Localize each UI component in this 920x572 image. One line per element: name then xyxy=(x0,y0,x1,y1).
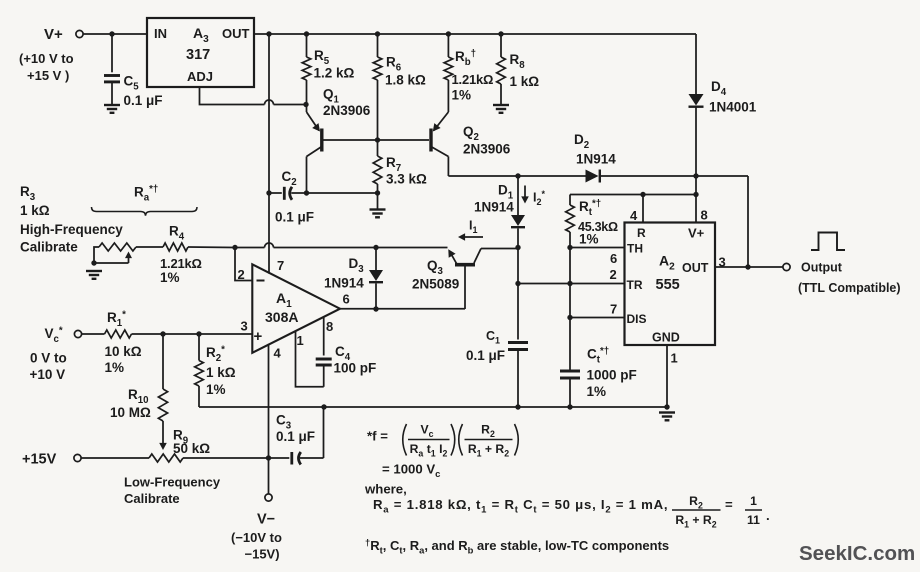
label low-frequency calibrate xyxy=(124,475,221,507)
wire pin4 pin8 rail xyxy=(570,176,708,223)
diode D4 1N4001 xyxy=(689,34,757,176)
svg-text:(−10V to: (−10V to xyxy=(231,530,282,545)
icon pulse waveform xyxy=(811,233,845,251)
svg-text:1.21kΩ: 1.21kΩ xyxy=(160,256,202,271)
ground below R3 xyxy=(86,271,102,279)
diode D2 1N914 xyxy=(574,132,616,183)
svg-text:2: 2 xyxy=(610,267,617,282)
wire TR pin 2 xyxy=(515,248,624,287)
wire ground rail xyxy=(199,404,670,409)
svg-text:†Rt, Ct, Ra, and Rb are stable: †Rt, Ct, Ra, and Rb are stable, low-TC c… xyxy=(365,537,669,556)
svg-text:+: + xyxy=(254,328,263,345)
svg-text:OUT: OUT xyxy=(222,26,250,41)
svg-text:3: 3 xyxy=(719,255,726,270)
diode D3 1N914 xyxy=(324,248,383,312)
svg-text:2N5089: 2N5089 xyxy=(412,277,459,292)
svg-text:1 kΩ: 1 kΩ xyxy=(20,203,50,218)
resistor R1 10k xyxy=(105,309,142,375)
svg-text:OUT: OUT xyxy=(682,261,709,275)
capacitor C2 xyxy=(269,169,378,225)
svg-text:10 kΩ: 10 kΩ xyxy=(105,344,142,359)
wire op-amp pin 4 to V- xyxy=(266,344,271,494)
svg-text:Calibrate: Calibrate xyxy=(20,240,78,255)
svg-text:ADJ: ADJ xyxy=(187,69,213,84)
svg-text:1%: 1% xyxy=(579,232,599,247)
capacitor C4 100pF xyxy=(296,317,377,387)
formula 1000Vc xyxy=(382,462,440,481)
resistor R5 xyxy=(302,34,354,105)
current arrow I2 xyxy=(521,186,545,208)
svg-text:100 pF: 100 pF xyxy=(334,361,377,376)
ground at rail end xyxy=(659,413,675,421)
wire summing line with hop xyxy=(188,243,448,250)
svg-text:1: 1 xyxy=(671,351,678,366)
wire TH pin 6 xyxy=(567,245,624,266)
svg-text:1%: 1% xyxy=(160,270,180,285)
svg-text:8: 8 xyxy=(701,208,708,223)
resistor R8 xyxy=(497,34,540,105)
label output xyxy=(798,261,901,296)
wire pin 2 input xyxy=(232,245,252,281)
svg-text:R1 + R2: R1 + R2 xyxy=(675,513,716,529)
svg-text:1%: 1% xyxy=(452,88,472,103)
svg-text:TH: TH xyxy=(627,242,643,256)
label where xyxy=(364,482,407,497)
svg-text:1N914: 1N914 xyxy=(324,276,364,291)
svg-text:0.1 μF: 0.1 μF xyxy=(466,348,505,363)
wire V+ vertical to op-amp pin 7 xyxy=(266,34,271,274)
svg-text:SeekIC.com: SeekIC.com xyxy=(799,542,915,565)
svg-text:1N914: 1N914 xyxy=(474,200,514,215)
transistor Q1 2N3906 xyxy=(307,87,371,194)
svg-text:2N3906: 2N3906 xyxy=(463,142,511,157)
svg-text:4: 4 xyxy=(630,208,638,223)
svg-text:0 V to: 0 V to xyxy=(30,351,67,366)
resistor R9 pot 50k xyxy=(82,428,269,463)
svg-text:555: 555 xyxy=(656,277,680,293)
svg-text:3.3 kΩ: 3.3 kΩ xyxy=(386,172,427,187)
resistor R2 1k xyxy=(195,334,236,407)
svg-text:*f =: *f = xyxy=(367,429,388,444)
svg-text:GND: GND xyxy=(652,331,680,345)
wire to OUT node xyxy=(745,176,750,270)
capacitor Ct 1000pF xyxy=(560,318,637,408)
svg-text:V+: V+ xyxy=(44,26,63,43)
ground below C5 xyxy=(104,105,120,113)
svg-text:1 kΩ: 1 kΩ xyxy=(510,74,540,89)
ground below R8 xyxy=(493,105,509,113)
wire pin 3 line xyxy=(82,331,252,336)
svg-text:Low-Frequency: Low-Frequency xyxy=(124,475,221,490)
svg-text:1.21kΩ: 1.21kΩ xyxy=(452,72,494,87)
transistor Q2 2N3906 xyxy=(431,80,511,176)
terminal V+ input xyxy=(19,26,83,83)
terminal V- supply xyxy=(231,494,282,562)
op-amp A1 308A xyxy=(238,258,350,361)
diode D1 1N914 xyxy=(474,176,525,340)
svg-text:DIS: DIS xyxy=(627,312,647,326)
svg-text:4: 4 xyxy=(274,346,282,361)
svg-text:1N4001: 1N4001 xyxy=(709,100,757,115)
label Ra bracket xyxy=(92,184,198,216)
wire V+ to IN xyxy=(84,31,148,36)
svg-text:High-Frequency: High-Frequency xyxy=(20,222,123,237)
svg-text:+15V: +15V xyxy=(22,452,57,468)
terminal +15V xyxy=(22,452,81,468)
wire OUT pin 3 to output terminal xyxy=(715,255,790,271)
footnote stable components xyxy=(365,537,669,556)
wire Q2 collector line xyxy=(448,173,748,178)
svg-text:1: 1 xyxy=(750,494,757,508)
ground below R7 xyxy=(370,210,386,218)
svg-text:1000 pF: 1000 pF xyxy=(587,368,637,383)
svg-text:6: 6 xyxy=(610,251,617,266)
svg-text:0.1 μF: 0.1 μF xyxy=(275,210,314,225)
svg-text:=: = xyxy=(725,497,733,512)
svg-text:2N3906: 2N3906 xyxy=(323,103,371,118)
capacitor C5 xyxy=(104,34,163,108)
svg-text:8: 8 xyxy=(326,319,333,334)
svg-text:+10 V: +10 V xyxy=(30,367,66,382)
svg-text:6: 6 xyxy=(343,292,350,307)
svg-text:1%: 1% xyxy=(105,360,125,375)
svg-text:(TTL Compatible): (TTL Compatible) xyxy=(798,281,901,295)
svg-text:0.1 μF: 0.1 μF xyxy=(124,93,163,108)
svg-text:1%: 1% xyxy=(587,384,607,399)
wire OUT top rail xyxy=(254,31,696,36)
svg-text:(+10 V to: (+10 V to xyxy=(19,51,74,66)
svg-text:R1 + R2: R1 + R2 xyxy=(468,442,509,458)
svg-text:1: 1 xyxy=(297,333,304,348)
svg-text:Calibrate: Calibrate xyxy=(124,491,180,506)
svg-text:1 kΩ: 1 kΩ xyxy=(206,365,236,380)
wire GND pin 1 xyxy=(667,345,678,407)
svg-text:1N914: 1N914 xyxy=(576,152,616,167)
svg-text:IN: IN xyxy=(154,26,167,41)
wire ADJ to R5 bottom with hop xyxy=(200,87,309,107)
svg-text:V−: V− xyxy=(257,512,275,528)
svg-text:1.2 kΩ: 1.2 kΩ xyxy=(314,66,355,81)
svg-text:7: 7 xyxy=(277,258,284,273)
svg-text:308A: 308A xyxy=(265,309,298,325)
terminal Vc input xyxy=(30,325,82,382)
regulator A3 317 xyxy=(147,18,254,87)
svg-text:Ra t1 I2: Ra t1 I2 xyxy=(410,442,448,458)
svg-text:Output: Output xyxy=(801,261,843,275)
svg-text:317: 317 xyxy=(186,47,210,63)
wire DIS pin 7 xyxy=(567,284,624,321)
svg-text:R: R xyxy=(637,226,646,240)
current arrow I1 xyxy=(458,219,483,241)
resistor Rt 45.3k xyxy=(566,195,618,248)
capacitor C3 0.1uF xyxy=(269,407,324,465)
watermark SeekIC.com xyxy=(799,542,915,565)
svg-text:1.8 kΩ: 1.8 kΩ xyxy=(385,73,426,88)
svg-text:11: 11 xyxy=(747,513,760,527)
svg-text:V+: V+ xyxy=(688,226,705,241)
svg-text:7: 7 xyxy=(610,302,617,317)
svg-text:−15V): −15V) xyxy=(245,547,280,562)
transistor Q3 2N5089 xyxy=(412,245,521,309)
wire op-amp output pin 6 xyxy=(340,308,465,310)
svg-text:3: 3 xyxy=(241,319,248,334)
timer A2 555 xyxy=(625,223,716,346)
capacitor C1 0.1uF xyxy=(466,329,528,407)
svg-text:50 kΩ: 50 kΩ xyxy=(173,441,210,456)
resistor R3 pot 1k xyxy=(20,184,136,266)
resistor R7 xyxy=(373,140,427,210)
svg-text:TR: TR xyxy=(627,278,643,292)
formula f equation xyxy=(367,423,518,459)
svg-text:.: . xyxy=(766,508,770,523)
resistor R10 10M xyxy=(110,334,168,450)
svg-text:1%: 1% xyxy=(206,382,226,397)
formula constants line xyxy=(373,494,770,529)
wire Q1-Q2 base line xyxy=(324,137,430,142)
svg-text:+15 V ): +15 V ) xyxy=(27,68,69,83)
svg-text:where,: where, xyxy=(364,482,407,497)
resistor R6 xyxy=(373,34,426,140)
svg-text:0.1 μF: 0.1 μF xyxy=(276,429,315,444)
resistor Rb xyxy=(444,34,493,103)
svg-text:10 MΩ: 10 MΩ xyxy=(110,405,151,420)
resistor R4 1.21k xyxy=(136,224,202,286)
